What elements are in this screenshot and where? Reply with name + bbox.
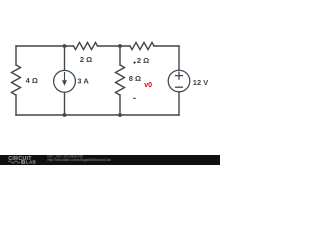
polarity plus marker (v0): [133, 61, 136, 64]
resistor R4 (8 ohm, middle branch): [116, 65, 125, 95]
svg-text:http://circuitlab.com/c/5kgab4: http://circuitlab.com/c/5kgab4e8/circuit…: [48, 158, 111, 162]
resistor R3 (4 ohm, left branch): [12, 65, 21, 95]
wire 8ohm top stub: [119, 46, 121, 65]
wire top-middle segment: [98, 45, 131, 47]
wire 8ohm bottom stub: [119, 95, 121, 115]
wire top-right segment: [154, 45, 179, 47]
wire bottom segment: [16, 114, 179, 116]
svg-text:8 Ω: 8 Ω: [129, 74, 141, 83]
CircuitLab logo: squiggle and LAB: [8, 160, 36, 165]
footer bar: [0, 155, 220, 165]
wire top-left segment: [16, 45, 74, 47]
node D (bottom, 8 ohm junction): [118, 113, 122, 117]
svg-text:LAB: LAB: [26, 160, 37, 165]
wire left bottom stub: [15, 95, 17, 115]
resistor R1 (2 ohm, top left): [74, 42, 98, 49]
svg-text:3 A: 3 A: [77, 77, 89, 86]
wire voltage source top stub: [178, 46, 180, 70]
svg-text:4 Ω: 4 Ω: [26, 76, 38, 85]
node B (top, 8 ohm junction): [118, 44, 122, 48]
svg-text:v0: v0: [144, 82, 152, 89]
svg-text:2 Ω: 2 Ω: [137, 56, 149, 65]
node A (top, current source junction): [63, 44, 67, 48]
polarity minus marker (v0): [133, 98, 136, 99]
wire current source bottom stub: [64, 92, 66, 115]
resistor R2 (2 ohm, top right): [130, 42, 154, 49]
svg-text:2 Ω: 2 Ω: [80, 55, 92, 64]
node C (bottom, current source junction): [63, 113, 67, 117]
svg-text:12 V: 12 V: [193, 78, 208, 87]
wire current source top stub: [64, 46, 66, 71]
voltage source V1 (12 V): [168, 70, 190, 92]
current source I1 (3 A): [54, 70, 76, 92]
wire voltage source bottom stub: [178, 92, 180, 115]
wire left top stub: [15, 46, 17, 65]
